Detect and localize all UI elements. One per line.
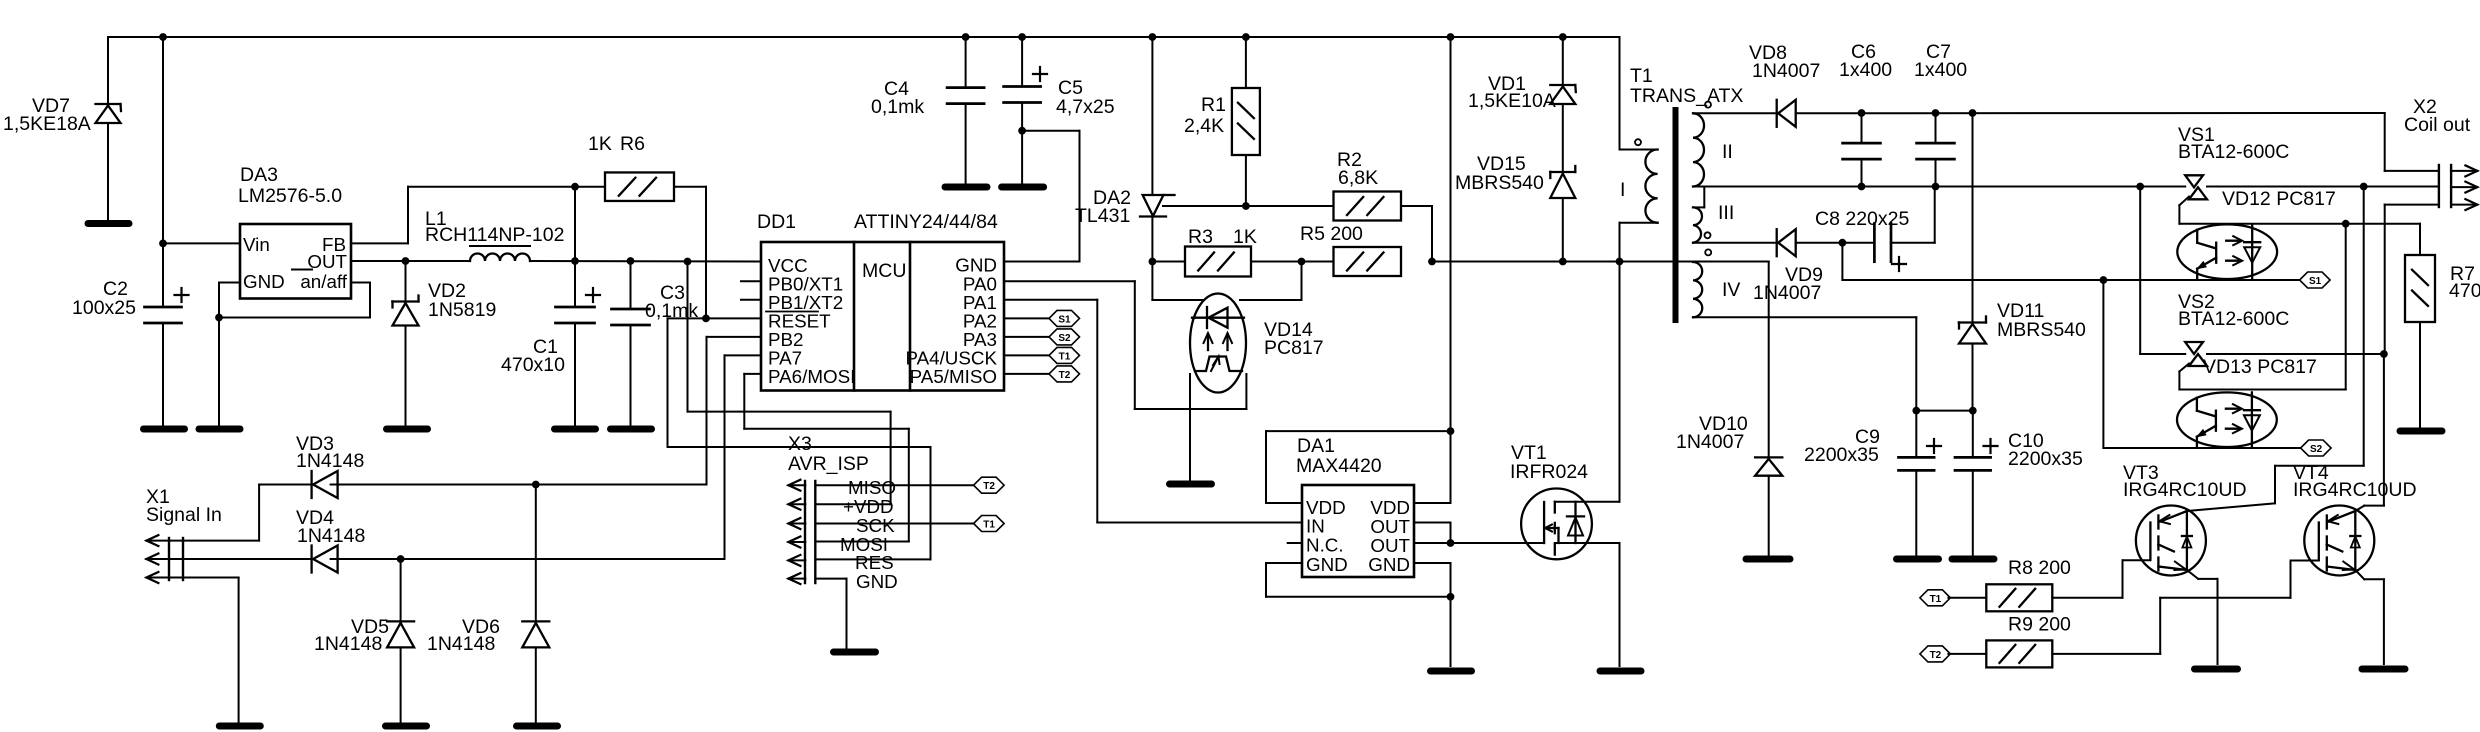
svg-text:GND: GND [1368,554,1410,575]
ground C4 [945,184,987,191]
svg-text:1N5819: 1N5819 [428,299,496,321]
junction top rail [1243,34,1250,41]
junction primary bottom [1616,258,1623,265]
wire VD12/VD13 gate link [2345,224,2347,390]
wire input to DA3 Vin [162,37,164,243]
diode VD11 MBRS540 [1972,113,1974,323]
wire 5V rail to MCU VCC [530,260,761,263]
resistor R5 200 [1334,247,1402,276]
svg-text:AVR_ISP: AVR_ISP [788,453,869,475]
wire +VDD to X3 [687,262,689,412]
svg-text:IN: IN [1306,516,1325,537]
svg-text:MAX4420: MAX4420 [1296,455,1382,477]
junction VD14 anode branch [1298,258,1305,265]
wire PB0 stub [741,280,761,282]
wire PA7 to VD4 [725,354,762,356]
capacitor C10 2200x35 [1972,411,1974,458]
connector X3 AVR_ISP [804,481,806,583]
junction C1 [572,258,579,265]
capacitor C1 470x10 [574,261,576,307]
wire output rail 1 [1796,112,2385,114]
wire X1 pin1 to VD3 [183,540,259,542]
junction C8/S net [1839,239,1846,246]
svg-text:T1: T1 [1059,351,1071,362]
wire VS2 branch [2139,187,2141,355]
connector X1 Signal In [168,538,170,580]
ground DA3 [199,426,240,433]
svg-text:2200x35: 2200x35 [1804,444,1879,466]
wire PA6/MOSI to X3 [744,373,761,375]
wire R6 left to 5V rail [574,187,576,261]
svg-text:100x25: 100x25 [72,297,136,319]
wire VD12 gate line [2179,223,2420,225]
wire VT4 gate from R9 [2290,561,2292,598]
junction VS2 branch [2137,183,2144,190]
flag T2 at X3 [974,477,1005,493]
wire RESET net [668,317,762,319]
svg-text:1N4007: 1N4007 [1676,431,1744,453]
wire DA2 branch from top rail [1151,37,1153,195]
svg-text:1N4007: 1N4007 [1753,282,1821,304]
ground C3 [611,426,652,433]
svg-text:1N4148: 1N4148 [427,633,495,655]
diode VD10 1N4007 [1768,262,1770,458]
junction S2 branch [2100,277,2107,284]
svg-text:T1: T1 [983,520,995,531]
wire PB1 stub [741,299,761,301]
wire R3 to R5 [1251,261,1334,263]
svg-text:GND: GND [1306,554,1348,575]
wire DA2 to VD14 LED [1151,262,1153,301]
ground VT3 [2195,666,2238,673]
wire DA2 node to R1/R2 [1163,205,1334,207]
junction top rail [962,34,969,41]
svg-text:470x10: 470x10 [501,354,565,376]
wire PA4/USCK [1004,354,1049,356]
MCU DD1 ATTINY24/44/84 box [761,242,1004,391]
svg-text:1x400: 1x400 [1839,59,1892,81]
wire winding II top to VD8 [1693,112,1777,114]
svg-text:Vin: Vin [243,234,270,255]
junction C3 [627,258,634,265]
svg-text:IRG4RC10UD: IRG4RC10UD [2293,479,2417,501]
junction C7/C8 [1932,183,1939,190]
svg-text:R3: R3 [1188,226,1213,248]
svg-text:MBRS540: MBRS540 [1997,319,2086,341]
junction DA1 GND [1447,593,1454,600]
svg-text:VDD: VDD [1370,497,1410,518]
wire R2 right [1401,205,1432,207]
junction +VDD branch [684,258,691,265]
svg-text:SCK: SCK [856,515,895,536]
svg-text:T1: T1 [1930,594,1942,605]
svg-text:T2: T2 [1059,370,1071,381]
svg-text:VD13 PC817: VD13 PC817 [2203,356,2317,378]
svg-text:MISO: MISO [848,477,896,498]
svg-text:R8 200: R8 200 [2008,557,2071,579]
diode VD9 1N4007 [1776,229,1778,256]
wire MCU GND pin [1004,261,1080,263]
svg-text:DA1: DA1 [1297,435,1335,457]
optocoupler VD12 PC817 [2177,224,2277,279]
svg-text:DA3: DA3 [240,164,278,186]
transformer winding IV [1693,262,1702,317]
junction DA3 gnd [216,314,223,321]
connector X2 Coil out [2438,165,2440,207]
svg-text:TRANS_ATX: TRANS_ATX [1630,85,1743,107]
wire R5 node to transformer primary [1432,261,1769,263]
wire X1 pin2 to VD4 [183,558,312,560]
wire X1 pin3 to ground [183,577,239,579]
optocoupler VD13 PC817 [2177,392,2277,447]
ground C1 [555,426,596,433]
svg-text:4,7x25: 4,7x25 [1056,96,1115,118]
junction Vin node [160,240,167,247]
svg-text:1N4148: 1N4148 [297,525,365,547]
wire VD4 to PA7 net [331,558,725,560]
junction C5/GND wire [1019,127,1026,134]
wire VS1 gate to VD12 [2179,197,2189,206]
capacitor C6 1x400 [1861,113,1863,143]
wire R7 to ground [2419,322,2421,427]
wire X2 pin3 to VS2 [2385,204,2439,206]
junction top rail [160,34,167,41]
ground DA1 [1431,668,1472,675]
wire gate drive to VT1 [1451,542,1545,544]
svg-text:BTA12-600C: BTA12-600C [2178,141,2289,163]
wire X3 GND [815,578,846,580]
wire VS2 out [2207,353,2384,355]
junction VD2 [402,258,409,265]
junction C7 top [1932,110,1939,117]
diode VD4 1N4148 [310,546,312,573]
wire top +12V rail [108,36,1620,38]
wire VD13 gate line [2179,389,2345,391]
ground VT1 [1600,668,1641,675]
wire gate line to R7 [2419,224,2421,255]
ground R7 [2400,428,2442,435]
wire DA1 GND loop [1266,562,1302,564]
wire C9/C10 tops [1916,410,1973,412]
svg-text:2200x35: 2200x35 [2008,448,2083,470]
wire winding III bottom to VD9 [1693,242,1777,244]
wire DA1 OUT pins [1414,522,1451,524]
svg-text:1x400: 1x400 [1914,59,1967,81]
transformer T1 primary winding I [1645,150,1657,223]
ground VT4 [2362,666,2405,673]
wire winding II bottom rail [1693,186,2185,188]
svg-text:T2: T2 [1930,650,1942,661]
svg-text:1,5KE18A: 1,5KE18A [3,113,91,135]
wire rail to primary [1619,37,1621,150]
wire X2 pin2 rail [2207,186,2439,188]
transformer winding III [1693,207,1702,242]
wire SCK to flag [815,523,973,525]
junction R1 bottom [1243,203,1250,210]
capacitor C9 2200x35 [1915,411,1917,458]
svg-text:R1: R1 [1201,94,1226,116]
wire VT3 gate from R8 [2122,560,2124,598]
ground C10 [1952,556,1994,563]
resistor R2 6,8K [1334,192,1402,221]
wire II-III tap jog [1703,187,1705,208]
resistor R6 1K [605,172,674,201]
flag S2 [2301,440,2332,456]
flag S2 [1049,329,1080,345]
wire R9 to VT4 gate [2052,653,2160,655]
junction VD15 [1559,258,1566,265]
flag T2 [1049,366,1080,382]
junction VD5 [397,556,404,563]
triac VS2 BTA12-600C [2185,342,2203,354]
svg-text:+VDD: +VDD [843,496,894,517]
svg-text:X3: X3 [788,433,812,455]
wire S1 net from C8 node [1841,243,1843,280]
svg-text:OUT: OUT [1370,516,1410,537]
svg-text:S1: S1 [2309,276,2322,287]
svg-text:0,1mk: 0,1mk [871,96,924,118]
ground VD7 [88,220,129,227]
flag T1 at R8 [1920,590,1951,606]
transistor VT4 IRG4RC10UD [2304,506,2374,576]
svg-text:MBRS540: MBRS540 [1455,172,1544,194]
svg-text:RCH114NP-102: RCH114NP-102 [425,224,564,246]
capacitor C4 0,1mk [965,37,967,88]
wire S2 net [2102,280,2104,448]
svg-text:ATTINY24/44/84: ATTINY24/44/84 [854,211,998,233]
svg-text:GND: GND [243,271,285,292]
flag S1 [1049,310,1080,326]
svg-text:II: II [1722,141,1733,163]
diode VD1 1,5KE10A [1562,37,1564,85]
ground C2 [144,426,185,433]
junction VD11 top [1969,110,1976,117]
junction RESET/R6 [703,315,710,322]
capacitor C5 4,7x25 [1021,37,1023,87]
wire VD9 to C8 [1796,242,1875,244]
capacitor C7 1x400 [1935,113,1937,143]
svg-text:1N4148: 1N4148 [314,633,382,655]
wire VT4 emitter [2355,570,2364,579]
capacitor C3 0,1mk [630,261,632,309]
svg-text:an/aff: an/aff [300,271,347,292]
op-amp DA3 LM2576-5.0 regulator box [240,224,351,299]
ground VD6 [517,723,558,730]
driver DA1 MAX4420 box [1302,485,1414,577]
svg-text:2,4K: 2,4K [1184,115,1224,137]
wire VD14 emitter to ground [1189,374,1191,480]
junction R2/R5 [1429,258,1436,265]
flag T1 [1049,347,1080,363]
svg-text:1N4148: 1N4148 [296,450,364,472]
wire VT3 emitter [2187,570,2198,579]
svg-text:BTA12-600C: BTA12-600C [2178,308,2289,330]
resistor R7 470 [2405,255,2435,322]
flag T2 at R9 [1920,646,1951,662]
shunt-reg DA2 TL431 [1143,195,1164,216]
junction top rail [1559,34,1566,41]
svg-text:IRG4RC10UD: IRG4RC10UD [2123,479,2247,501]
svg-text:1,5KE10A: 1,5KE10A [1468,90,1556,112]
junction C10 top [1969,407,1976,414]
junction top rail [1149,34,1156,41]
wire VT1 drain [1619,262,1621,502]
transistor VT1 IRFR024 MOSFET [1521,489,1592,560]
svg-text:PC817: PC817 [1264,337,1324,359]
wire DA3 an/aff loop [351,282,370,284]
wire T2 to R9 [1948,653,1986,655]
svg-text:1K: 1K [1233,226,1257,248]
junction VS2/X2 [2381,351,2388,358]
inductor L1 RCH114NP-102 [470,245,530,247]
ground VD5 [386,723,427,730]
wire PB2 to VD3 [707,336,762,338]
ground X3 [834,649,876,656]
svg-text:T1: T1 [1630,65,1653,87]
svg-text:N.C.: N.C. [1306,535,1344,556]
svg-text:IRFR024: IRFR024 [1510,461,1588,483]
svg-text:Signal In: Signal In [146,504,222,526]
svg-text:6,8K: 6,8K [1338,167,1378,189]
flag S1 [2300,272,2331,288]
junction C6 top [1858,110,1865,117]
ground VD14 [1170,481,1212,488]
svg-text:OUT: OUT [307,251,347,272]
svg-text:TL431: TL431 [1075,205,1130,227]
svg-text:OUT: OUT [1370,535,1410,556]
wire VT4 collector to VS2 node [2355,506,2364,511]
svg-text:S2: S2 [1058,333,1071,344]
wire T1 to R8 [1948,597,1986,599]
junction DA1 VDD [1447,428,1454,435]
ground C9 [1897,556,1939,563]
wire VT3 collector to X2 pin2 [2187,503,2275,511]
svg-text:I: I [1620,179,1625,201]
wire PA1 to DA1 IN [1004,299,1097,301]
svg-text:DD1: DD1 [757,211,796,233]
transistor VT3 IRG4RC10UD [2136,506,2206,576]
svg-text:Coil out: Coil out [2404,114,2471,136]
flag T1 at X3 [974,516,1005,532]
capacitor C8 220x25 [1873,224,1876,262]
svg-text:R9 200: R9 200 [2008,614,2071,636]
wire R3 row [1152,261,1185,263]
wire PA0 to VD14 [1004,280,1135,282]
svg-text:IV: IV [1722,279,1740,301]
svg-text:GND: GND [856,571,898,592]
junction top rail [1447,34,1454,41]
wire DA3 FB to R6 [351,242,408,244]
diode VD8 1N4007 [1776,100,1778,127]
junction X2 pin2 [2360,183,2367,190]
wire R6 right to RESET [674,186,706,188]
diode VD7 1,5KE18A [107,37,109,104]
junction DA1 OUT [1447,540,1454,547]
wire VT1 source to ground [1619,543,1621,666]
diode VD2 1N5819 [405,261,407,302]
svg-text:III: III [1718,202,1734,224]
wire R8 to VT3 gate [2052,597,2122,599]
svg-text:VD12 PC817: VD12 PC817 [2222,188,2336,210]
ground X1 [219,723,260,730]
optocoupler VD14 PC817 [1190,294,1246,393]
svg-text:R6: R6 [620,133,645,155]
wire MISO to flag [815,484,973,486]
svg-text:1K: 1K [588,133,612,155]
svg-text:PA5/MISO: PA5/MISO [910,366,997,387]
junction gate line [2342,220,2349,227]
svg-text:S1: S1 [1058,314,1071,325]
svg-text:RES: RES [855,552,894,573]
svg-text:GND: GND [955,255,997,276]
svg-text:T2: T2 [983,481,995,492]
svg-text:R5 200: R5 200 [1300,223,1363,245]
svg-text:470: 470 [2449,280,2480,302]
junction top rail [1019,34,1026,41]
wire winding IV bottom to C9 [1693,316,1916,318]
junction R3 node [1149,258,1156,265]
diode VD6 1N4148 [535,485,537,622]
wire DA3 GND loop [219,282,240,284]
resistor R3 1K [1185,247,1251,277]
triac VS1 BTA12-600C [2185,175,2203,187]
wire PA5/MISO [1004,373,1049,375]
wire PA2 [1004,317,1049,319]
diode VD3 1N4148 [310,471,312,498]
transformer winding II [1693,113,1704,186]
capacitor C2 100x25 [162,243,164,307]
wire PA3 [1004,336,1049,338]
ground VD10 [1746,556,1790,563]
junction C6 bottom [1858,183,1865,190]
svg-text:MCU: MCU [862,260,906,282]
svg-text:LM2576-5.0: LM2576-5.0 [238,185,342,207]
wire VD3 to PB2 net [331,484,707,486]
wire DA1 VDD loop to +12 [1266,430,1451,432]
transformer core [1673,110,1679,320]
junction FB/5V [572,183,579,190]
svg-text:PA6/MOSI: PA6/MOSI [768,366,855,387]
wire DA1 N.C. stub [1288,542,1302,544]
wire VD14 LED right to R3/R5 node [1240,299,1302,301]
svg-text:C8 220x25: C8 220x25 [1815,208,1909,230]
diode VD15 MBRS540 [1550,171,1575,173]
wire DA3 OUT [351,260,470,262]
wire C8 right to rail2 [1891,242,1935,244]
ground VD2 [387,426,428,433]
wire +12 to DA1 [1450,37,1452,431]
svg-text:1N4007: 1N4007 [1752,60,1820,82]
junction C9 top [1913,407,1920,414]
resistor R8 200 [1986,584,2052,611]
resistor R1 2,4K [1245,37,1247,88]
diode VD5 1N4148 [400,559,402,621]
junction VD6 [532,481,539,488]
wire VS2 gate [2179,364,2189,372]
ground C5 [1002,184,1044,191]
svg-text:S2: S2 [2310,444,2323,455]
resistor R9 200 [1986,640,2052,667]
